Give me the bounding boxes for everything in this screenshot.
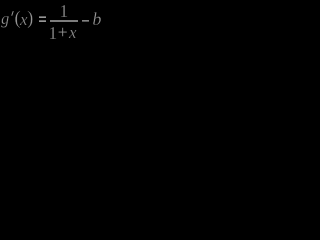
= top bar [39, 16, 47, 17]
numerator 1 [59, 2, 68, 20]
denominator 1 [48, 24, 57, 42]
minus [82, 20, 89, 21]
( [15, 10, 21, 29]
x italic [20, 11, 28, 28]
b italic [92, 10, 101, 28]
= bottom bar [39, 20, 47, 21]
fraction bar [50, 20, 78, 21]
denominator x [69, 24, 77, 41]
denominator + [58, 24, 68, 42]
g italic [1, 11, 9, 28]
prime [12, 11, 15, 16]
) [27, 10, 33, 29]
